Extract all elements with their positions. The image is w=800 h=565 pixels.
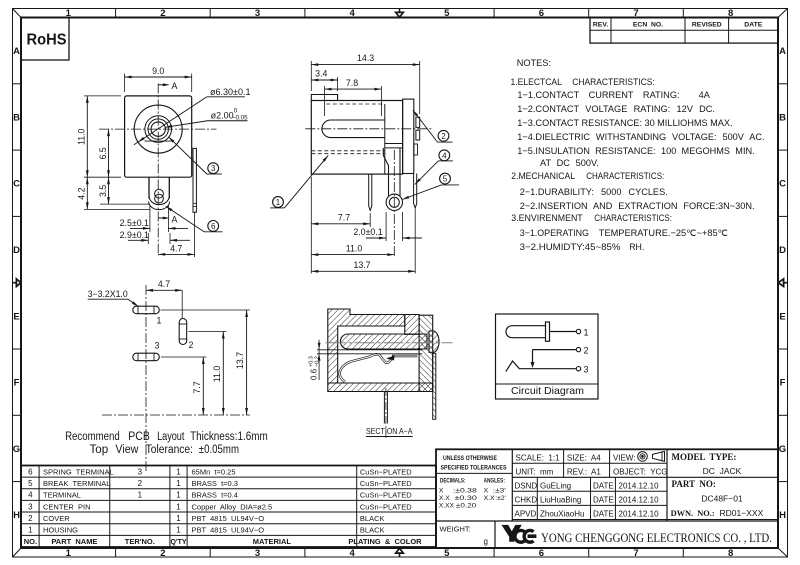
svg-text:3.ENVIRENMENT: 3.ENVIRENMENT [511, 213, 583, 223]
svg-text:NOTES:: NOTES: [517, 58, 551, 68]
svg-text:D: D [13, 245, 20, 256]
balloon 6 [208, 221, 219, 232]
svg-text:REV.: REV. [593, 22, 608, 29]
pcb layout centerline horizontal [102, 414, 250, 416]
svg-text:7: 7 [633, 548, 638, 559]
section A-A break terminal strip [392, 355, 418, 357]
svg-text::±3': :±3' [493, 488, 506, 495]
svg-text:1.ELECTCAL: 1.ELECTCAL [511, 77, 562, 87]
svg-text:A: A [172, 214, 178, 224]
svg-text:MATERIAL: MATERIAL [253, 537, 292, 546]
circuit plug barrel pin 1 [506, 326, 546, 338]
svg-text:±0.20: ±0.20 [456, 503, 477, 510]
svg-text:4.2: 4.2 [77, 187, 87, 199]
svg-text:View: View [115, 444, 139, 456]
svg-text:4: 4 [442, 151, 447, 160]
svg-text:Recommend: Recommend [65, 431, 120, 443]
svg-text:1: 1 [28, 526, 33, 535]
svg-text:ECN NO.: ECN NO. [633, 22, 663, 29]
svg-text:±0.30: ±0.30 [455, 495, 478, 502]
svg-text:DATE: DATE [744, 22, 762, 29]
svg-text:1−2.CONTACT VOLTAGE RATING: 12: 1−2.CONTACT VOLTAGE RATING: 12V DC. [517, 104, 715, 114]
svg-text:3.5: 3.5 [98, 185, 108, 197]
section A-A housing wall (top and left) [328, 309, 405, 383]
svg-text:REVISED: REVISED [692, 22, 722, 29]
svg-text:H: H [779, 510, 786, 521]
pcb layout dim 4.7 [181, 290, 183, 318]
svg-text:0.6: 0.6 [310, 368, 319, 380]
svg-text:DATE: DATE [593, 495, 614, 504]
svg-text:5: 5 [444, 8, 450, 19]
svg-text:AT DC 500V.: AT DC 500V. [540, 158, 599, 168]
svg-text:2: 2 [441, 132, 446, 141]
svg-text:3: 3 [255, 548, 260, 559]
svg-text:0: 0 [234, 108, 238, 115]
side view terminal 2 tab [416, 117, 420, 127]
svg-text:1: 1 [276, 198, 281, 207]
side view dim 13.7 [414, 209, 416, 274]
front view dim 11.0 [84, 95, 121, 97]
svg-text:9.0: 9.0 [152, 66, 164, 76]
svg-text:3: 3 [211, 164, 216, 173]
side view center pin circle [386, 194, 402, 210]
svg-text:1: 1 [176, 467, 181, 476]
title block outline [436, 449, 778, 548]
side view right pin [414, 174, 417, 209]
side view dim 11.0 [311, 254, 394, 256]
svg-text:CuSn−PLATED: CuSn−PLATED [360, 502, 412, 511]
svg-text:F: F [14, 378, 20, 389]
svg-text:2−1.DURABILITY: 5000 CYCLES.: 2−1.DURABILITY: 5000 CYCLES. [520, 187, 668, 197]
svg-text:Circuit Diagram: Circuit Diagram [511, 385, 584, 397]
svg-text:HOUSING: HOUSING [43, 526, 78, 535]
svg-text:Layout: Layout [157, 431, 185, 443]
svg-text:11.0: 11.0 [212, 366, 222, 383]
tolerance box [436, 472, 512, 474]
svg-text::±0.38: :±0.38 [453, 488, 477, 495]
wire pin 1 [550, 331, 577, 333]
svg-text:1: 1 [66, 548, 72, 559]
svg-text:ø6.30±0.1: ø6.30±0.1 [210, 87, 250, 97]
svg-text:RH.: RH. [629, 242, 644, 252]
section A-A tail centerline [385, 388, 387, 438]
section A-A right thin plate [433, 353, 436, 419]
section A-A dim 0.6 [317, 349, 422, 351]
front view tab holes [155, 189, 164, 198]
balloon 2 [438, 130, 449, 141]
weight cell [494, 521, 496, 548]
pcb layout dim 13.7 [161, 309, 250, 311]
svg-text:−0.05: −0.05 [232, 115, 248, 122]
svg-text:±0.05mm: ±0.05mm [199, 444, 239, 456]
svg-text:G: G [779, 444, 786, 455]
section A-A right top block [405, 315, 419, 335]
section A-A cover right wall [419, 315, 433, 391]
balloon 5 [440, 173, 451, 184]
svg-text:7.7: 7.7 [192, 381, 202, 393]
svg-text:1: 1 [176, 491, 181, 500]
front view centerline vertical [157, 84, 159, 257]
svg-text:Q'TY: Q'TY [170, 539, 186, 546]
svg-text:1−1.CONTACT CURRENT RATING: 4: 1−1.CONTACT CURRENT RATING: 4A [517, 90, 710, 100]
pcb layout dim 11.0 [189, 331, 227, 333]
svg-text:D: D [779, 245, 786, 256]
pcb slot 2 [179, 319, 187, 345]
svg-text:5: 5 [28, 479, 33, 488]
svg-text:2: 2 [160, 548, 165, 559]
side view body outline [311, 101, 402, 175]
circuit diagram box [496, 314, 599, 399]
svg-text:TERMINAL: TERMINAL [43, 491, 81, 500]
svg-text:6: 6 [539, 548, 544, 559]
view symbol cone [653, 451, 665, 461]
svg-text:CENTER PIN: CENTER PIN [43, 502, 91, 511]
svg-text:6: 6 [211, 222, 216, 231]
zone tick marks top/bottom [115, 9, 117, 18]
side view dim 7.7 [310, 177, 312, 274]
front view dim 4.7 [194, 212, 196, 257]
svg-text:6: 6 [28, 467, 33, 476]
svg-text:CHARACTERISTICS:: CHARACTERISTICS: [572, 77, 655, 87]
section A-A bottom wall [328, 383, 433, 392]
svg-text:BRASS t=0.4: BRASS t=0.4 [192, 491, 238, 500]
svg-text:RD01−XXX: RD01−XXX [720, 508, 764, 518]
svg-text:COVER: COVER [43, 514, 70, 523]
svg-text::±2': :±2' [495, 495, 506, 502]
svg-text:13.7: 13.7 [353, 260, 370, 270]
svg-text:2014.12.10: 2014.12.10 [619, 481, 660, 490]
side view dim 7.8 [324, 86, 326, 116]
front view ring circle 2 [148, 119, 168, 139]
svg-text:A: A [172, 81, 178, 91]
front view dim 4.2 [84, 208, 150, 210]
svg-text:G: G [13, 444, 20, 455]
svg-text:2: 2 [584, 345, 589, 355]
svg-text:A: A [13, 46, 20, 57]
svg-text:B: B [779, 112, 786, 123]
svg-text:UNIT: mm: UNIT: mm [516, 467, 554, 476]
svg-text:3: 3 [584, 365, 589, 375]
svg-text:3−1.OPERATING: 3−1.OPERATING [520, 228, 589, 238]
side view cover plate [403, 99, 414, 173]
zone tick marks left/right [13, 83, 22, 85]
side view barrel slot [322, 120, 385, 138]
svg-text:DATE: DATE [593, 510, 614, 519]
svg-text:Thickness:1.6mm: Thickness:1.6mm [190, 431, 268, 443]
svg-text:3: 3 [155, 341, 160, 351]
svg-text:SCALE: 1:1: SCALE: 1:1 [516, 453, 561, 462]
svg-text:E: E [13, 311, 19, 322]
svg-text:3.4: 3.4 [315, 69, 327, 79]
svg-text:14.3: 14.3 [357, 53, 374, 63]
section A-A pin tail [383, 392, 385, 424]
svg-text:2−2.INSERTION AND EXTRACTION F: 2−2.INSERTION AND EXTRACTION FORCE:3N~30… [520, 201, 755, 211]
svg-text:1: 1 [176, 526, 181, 535]
svg-text:2: 2 [189, 340, 194, 350]
svg-text:Top: Top [90, 444, 109, 456]
svg-text:ø2.00: ø2.00 [211, 110, 234, 120]
svg-text:CHKD: CHKD [515, 495, 538, 504]
label dia 2.00 [165, 121, 207, 128]
svg-text:MODEL TYPE:: MODEL TYPE: [672, 452, 737, 462]
pcb slot 1 [133, 306, 160, 314]
svg-text:DC48F−01: DC48F−01 [701, 494, 743, 504]
balloon 4 [439, 150, 450, 161]
svg-text:11.0: 11.0 [77, 128, 87, 145]
svg-text:2.9±0.1: 2.9±0.1 [120, 230, 149, 240]
front view barrel circle (6.30 dia) [134, 105, 182, 153]
svg-text:1: 1 [176, 514, 181, 523]
svg-text:65Mn t=0.25: 65Mn t=0.25 [192, 467, 236, 476]
svg-text:−0.2: −0.2 [315, 356, 321, 367]
svg-text:DWN. NO.:: DWN. NO.: [671, 508, 715, 518]
front view ring circle [145, 116, 172, 143]
svg-text:PBT 4815 UL94V−O: PBT 4815 UL94V−O [192, 514, 265, 523]
svg-text:2014.12.10: 2014.12.10 [619, 510, 660, 519]
svg-text:X.XX: X.XX [439, 503, 454, 510]
svg-text:CuSn−PLATED: CuSn−PLATED [360, 467, 412, 476]
side view latch bump [311, 95, 337, 101]
svg-text:TEMPERATURE.−25℃~+85℃: TEMPERATURE.−25℃~+85℃ [599, 228, 728, 238]
side view dim 3.4 [337, 77, 339, 91]
svg-text:5: 5 [443, 175, 448, 184]
svg-text:1−4.DIELECTRIC WITHSTANDING VO: 1−4.DIELECTRIC WITHSTANDING VOLTAGE: 500… [517, 132, 764, 142]
svg-text:VIEW:: VIEW: [613, 453, 636, 462]
svg-text:APVD: APVD [515, 510, 537, 519]
svg-text:4: 4 [350, 548, 356, 559]
centering arrow bottom [399, 552, 401, 557]
side view small tab [414, 144, 418, 155]
svg-text:4: 4 [28, 491, 33, 500]
wire pin 2 [533, 349, 577, 351]
wire pin 3 with spring contact [506, 361, 577, 372]
svg-text:1: 1 [584, 327, 589, 337]
svg-text:1−5.INSULATION RESISTANCE: 100: 1−5.INSULATION RESISTANCE: 100 MEGOHMS M… [517, 146, 754, 156]
svg-text:3: 3 [138, 467, 143, 476]
svg-text:X: X [484, 488, 489, 495]
frame corner diagonals [13, 9, 22, 18]
svg-text:2: 2 [28, 514, 33, 523]
svg-text:4.7: 4.7 [158, 279, 170, 289]
side view left pin [369, 174, 372, 210]
svg-text:CuSn−PLATED: CuSn−PLATED [360, 479, 412, 488]
svg-text:A: A [779, 46, 786, 57]
svg-text:WEIGHT:: WEIGHT: [440, 525, 471, 534]
side view step lines [385, 143, 403, 145]
front view side terminal strip [193, 148, 196, 212]
svg-text:SPECIFIED TOLERANCES: SPECIFIED TOLERANCES [441, 465, 507, 472]
svg-text:GuELing: GuELing [540, 481, 571, 490]
svg-text:3: 3 [28, 502, 33, 511]
svg-text:6: 6 [539, 8, 544, 19]
label dia 6.30 [134, 97, 207, 145]
front view section arrow A bottom [158, 217, 166, 219]
revision table [590, 18, 778, 44]
svg-text:g: g [484, 537, 488, 546]
side view hidden line top [326, 103, 385, 105]
svg-text:1: 1 [176, 502, 181, 511]
svg-text:C: C [13, 179, 20, 190]
svg-text:6.5: 6.5 [98, 147, 108, 159]
front view bottom tab [148, 177, 150, 198]
svg-text:LiuHuaBing: LiuHuaBing [540, 495, 581, 504]
section A-A spring terminal wire [340, 354, 393, 382]
front view dim 3.5 [100, 203, 150, 205]
svg-text:PLATING & COLOR: PLATING & COLOR [348, 537, 422, 546]
pcb layout dim 7.7 [161, 356, 207, 358]
section A-A pin cap [429, 331, 439, 352]
front view chord line [145, 140, 172, 142]
svg-text:RoHS: RoHS [27, 32, 67, 49]
side view dim 14.3 [310, 61, 312, 91]
side view center pin bar [383, 148, 388, 197]
svg-text:E: E [779, 311, 785, 322]
svg-text:2.MECHANICAL: 2.MECHANICAL [511, 171, 575, 181]
section A-A center pin [340, 334, 427, 349]
svg-text:13.7: 13.7 [235, 352, 245, 369]
svg-text:7.8: 7.8 [346, 78, 358, 88]
svg-text:ANGLES:: ANGLES: [484, 478, 505, 485]
svg-text:OBJECT: YCG: OBJECT: YCG [613, 467, 668, 476]
svg-text:SECTION A−A: SECTION A−A [366, 426, 413, 436]
svg-text:B: B [13, 112, 20, 123]
side view centerline horizontal [305, 128, 433, 130]
side view dim 2.0 [385, 212, 387, 241]
front view centerline horizontal [99, 128, 217, 130]
svg-text:3: 3 [255, 8, 260, 19]
svg-text:2014.12.10: 2014.12.10 [619, 495, 660, 504]
front view dim 2.5 [149, 205, 151, 232]
svg-text:X.X: X.X [439, 495, 450, 502]
centering arrow top [399, 9, 401, 14]
svg-text:PART NO:: PART NO: [672, 479, 716, 489]
svg-text:1: 1 [138, 491, 143, 500]
pcb layout centerline vertical [145, 285, 147, 473]
svg-text:2: 2 [160, 8, 165, 19]
svg-text:7.7: 7.7 [338, 213, 350, 223]
svg-text:8: 8 [728, 548, 733, 559]
pcb slot 3 [133, 353, 160, 361]
side view inner wall [384, 104, 386, 174]
front view dim 6.5 [108, 129, 110, 177]
svg-text:DATE: DATE [593, 481, 614, 490]
svg-text:PART NAME: PART NAME [51, 537, 97, 546]
svg-text:2.0±0.1: 2.0±0.1 [353, 227, 382, 237]
svg-text:TER'NO.: TER'NO. [125, 537, 155, 546]
svg-text:3−2.HUMIDTY:45~85%: 3−2.HUMIDTY:45~85% [520, 242, 621, 252]
svg-text:11.0: 11.0 [346, 243, 363, 253]
svg-text:X: X [439, 488, 444, 495]
dsnd chkd apvd rows [512, 490, 667, 492]
svg-text:DSND: DSND [515, 481, 538, 490]
svg-text:PBT 4815 UL94V−O: PBT 4815 UL94V−O [192, 526, 265, 535]
svg-text:5: 5 [444, 548, 450, 559]
centering arrow right [783, 282, 788, 284]
section A-A main centerline [326, 342, 453, 344]
svg-text:BRASS t=0.3: BRASS t=0.3 [192, 479, 238, 488]
front view section arrow A top [158, 84, 166, 86]
front view housing body [125, 96, 192, 177]
svg-text:Tolerance:: Tolerance: [146, 444, 193, 456]
company logo YCG [502, 525, 522, 542]
svg-text:X.X: X.X [484, 495, 495, 502]
side view pin centerline [393, 150, 395, 257]
svg-text:DECIMALS:: DECIMALS: [440, 478, 466, 485]
svg-text:2: 2 [138, 479, 143, 488]
RoHS box [21, 18, 69, 61]
svg-text:BLACK: BLACK [360, 514, 385, 523]
svg-text:SPRING TERMINAL: SPRING TERMINAL [43, 467, 114, 476]
svg-text:CHARACTERISTICS:: CHARACTERISTICS: [594, 213, 672, 223]
svg-text:C: C [779, 179, 786, 190]
svg-text:4: 4 [350, 8, 356, 19]
svg-text:BLACK: BLACK [360, 526, 385, 535]
front view dim 2.9 [147, 233, 149, 244]
centering arrow left [13, 282, 18, 284]
svg-text:UNLESS OTHERWISE: UNLESS OTHERWISE [443, 455, 497, 462]
svg-text:REV.: A1: REV.: A1 [567, 467, 602, 476]
svg-text:DC JACK: DC JACK [703, 466, 742, 476]
svg-text:SIZE: A4: SIZE: A4 [567, 453, 601, 462]
svg-text:F: F [780, 378, 786, 389]
svg-text:BREAK TERMINAL: BREAK TERMINAL [43, 479, 110, 488]
svg-text:1: 1 [157, 316, 162, 326]
balloon 1 [273, 197, 284, 208]
svg-text:PCB: PCB [128, 431, 150, 443]
svg-text:4.7: 4.7 [170, 244, 182, 254]
svg-text:3−3.2X1.0: 3−3.2X1.0 [88, 289, 128, 299]
svg-text:YONG CHENGGONG ELECTRONICS CO.: YONG CHENGGONG ELECTRONICS CO. , LTD. [541, 530, 772, 545]
svg-text:1−3.CONTACT RESISTANCE: 30 MIL: 1−3.CONTACT RESISTANCE: 30 MILLIOHMS MAX… [517, 118, 732, 128]
svg-text:CuSn−PLATED: CuSn−PLATED [360, 491, 412, 500]
scale size view row [512, 462, 667, 464]
view symbol circle [638, 452, 648, 462]
side view hidden lines bottom [311, 150, 385, 152]
svg-text:CHARACTERISTICS:: CHARACTERISTICS: [586, 171, 664, 181]
front view center pin hole (2.00 dia) [151, 122, 165, 136]
svg-text:1: 1 [176, 479, 181, 488]
parts list table [21, 466, 436, 548]
front view dim 9.0 [124, 74, 126, 93]
svg-text:ZhouXiaoHu: ZhouXiaoHu [540, 510, 584, 519]
svg-text:NO.: NO. [24, 537, 37, 546]
svg-text:2.5±0.1: 2.5±0.1 [120, 218, 149, 228]
balloon 3 [208, 163, 219, 174]
svg-text:Copper Alloy DIA=ø2.5: Copper Alloy DIA=ø2.5 [192, 502, 273, 511]
svg-text:H: H [13, 510, 20, 521]
